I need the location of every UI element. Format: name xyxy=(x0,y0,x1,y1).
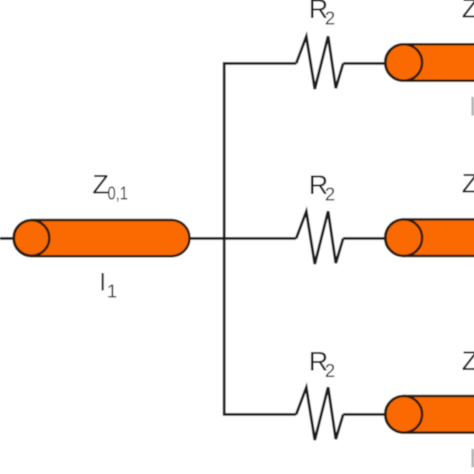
transmission line TL3 body xyxy=(385,219,474,256)
wire TL1 to node xyxy=(190,237,297,240)
transmission line TL3 end cap xyxy=(386,219,423,256)
transmission line TL2 end cap xyxy=(386,44,423,81)
resistor R2 top xyxy=(296,36,343,89)
wire R2 middle to TL3 xyxy=(343,237,386,240)
node vertical bus xyxy=(224,63,296,414)
wire R2 top to TL2 xyxy=(343,62,386,65)
svg-text:Z: Z xyxy=(462,168,474,198)
svg-text:2: 2 xyxy=(325,184,335,205)
resistor R2 bottom xyxy=(296,387,343,440)
label Z0,1 xyxy=(92,169,128,203)
svg-text:2: 2 xyxy=(325,8,335,29)
svg-text:Z: Z xyxy=(462,346,474,376)
transmission line TL1 body xyxy=(14,220,190,256)
wire R2 bottom to TL4 xyxy=(343,413,386,416)
transmission line TL2 body xyxy=(385,44,474,81)
svg-text:Z: Z xyxy=(92,169,109,199)
svg-text:2: 2 xyxy=(325,360,335,381)
svg-text:1: 1 xyxy=(107,280,117,301)
gray artifact right top xyxy=(471,97,474,116)
label l1 xyxy=(100,269,117,301)
label R2 middle xyxy=(309,170,335,205)
transmission line TL4 body xyxy=(385,396,474,433)
transmission line TL4 end cap xyxy=(386,396,423,433)
wire input left xyxy=(0,237,15,240)
resistor R2 middle xyxy=(296,211,343,264)
gray artifact right bottom xyxy=(471,449,474,467)
label R2 top xyxy=(309,0,335,29)
svg-text:l: l xyxy=(100,269,105,296)
label R2 bottom xyxy=(309,347,335,382)
svg-text:0,1: 0,1 xyxy=(108,182,129,203)
transmission line TL1 end cap xyxy=(14,220,49,255)
svg-text:Z: Z xyxy=(462,0,474,24)
